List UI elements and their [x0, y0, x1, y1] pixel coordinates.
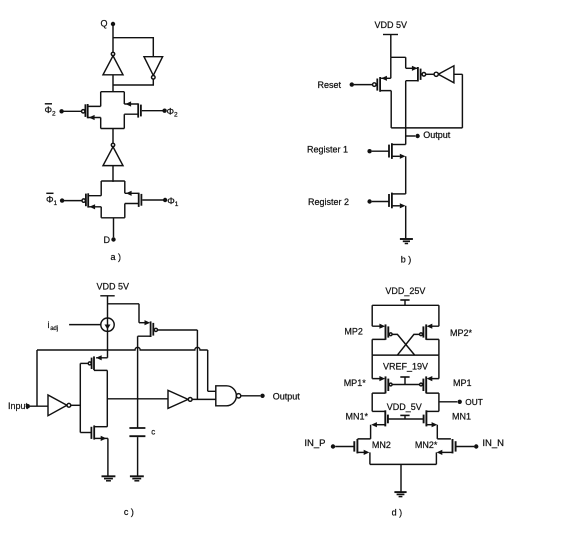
- wire M2 gate lead: [80, 432, 90, 434]
- node Register 2: [372, 201, 389, 203]
- node Output fig c: [241, 395, 260, 397]
- transmission gate TG1: [59, 92, 166, 129]
- wire Q2 drain down: [406, 81, 418, 145]
- capacitor C: [129, 427, 145, 429]
- inverter A2 feedback: [144, 57, 163, 76]
- wire inverter C2 output to nand: [192, 398, 216, 400]
- wire TG pmos gate lead: [64, 110, 82, 112]
- transmission gate TG2: [60, 181, 167, 218]
- svg-text:MN1*: MN1*: [346, 412, 369, 422]
- svg-text:Register 2: Register 2: [308, 197, 349, 207]
- transistor TG nmos right: [137, 103, 139, 117]
- ground 2 fig c: [130, 475, 144, 477]
- wire branch to right pmos: [391, 57, 406, 68]
- svg-text:VDD 5V: VDD 5V: [97, 282, 130, 292]
- svg-text:Reset: Reset: [318, 80, 342, 90]
- wire TG body outline: [101, 180, 125, 182]
- wire inverter C1 output: [71, 404, 81, 406]
- transistor TG pmos left: [84, 104, 86, 117]
- transistor MP2: [372, 305, 379, 326]
- wire Q to inverter A1: [112, 24, 114, 52]
- transistor Q3 register1 nmos: [392, 144, 406, 146]
- node Register 1: [372, 150, 389, 152]
- wire tail bus to ground: [370, 463, 437, 465]
- transistor M1 pmos: [96, 350, 107, 358]
- current source Iadj: [101, 318, 114, 331]
- wire top rail: [372, 304, 439, 306]
- wire integrator node: [107, 398, 168, 400]
- wire Q node to feedback inverter A2: [113, 38, 153, 57]
- wire M3 drain to capacitor with hop: [138, 336, 151, 428]
- source arrow right: [126, 191, 132, 196]
- wire M2 source to ground: [94, 437, 108, 439]
- wire VDD to branch: [390, 35, 392, 58]
- svg-text:MP1: MP1: [453, 378, 472, 388]
- svg-text:2: 2: [174, 112, 178, 119]
- svg-text:1: 1: [54, 200, 58, 207]
- transistor MN1star: [372, 410, 385, 412]
- svg-text:1: 1: [175, 201, 179, 208]
- svg-text:a ): a ): [111, 252, 122, 262]
- transistor MP2star: [432, 305, 439, 326]
- source arrow right: [125, 101, 131, 106]
- transistor MN2: [353, 441, 355, 451]
- wire Q1 drain to inverter input net: [380, 91, 462, 128]
- wire cross couple diag1: [392, 334, 415, 355]
- wire TG nmos gate lead: [142, 110, 163, 112]
- ground 1 fig c: [102, 475, 116, 477]
- wire inverter A2 output to latch node: [113, 79, 153, 85]
- wire inverter A3 to TG2: [112, 166, 114, 182]
- svg-text:VREF_19V: VREF_19V: [383, 361, 428, 371]
- svg-text:adj: adj: [50, 326, 58, 332]
- transistor TG nmos right: [138, 193, 140, 207]
- transistor TG pmos left: [85, 194, 87, 207]
- wire MP1 gates VREF: [392, 384, 419, 386]
- wire cross rail: [372, 354, 439, 356]
- wire Q2 gate to inverter B1: [426, 73, 434, 75]
- wire MP1 drain: [426, 393, 439, 411]
- wire TG pmos gate lead: [64, 200, 82, 202]
- transistor Q2 pmos right: [406, 67, 417, 69]
- ground fig b: [400, 238, 413, 240]
- inverter C1: [48, 395, 67, 416]
- svg-text:VDD_5V: VDD_5V: [387, 402, 422, 412]
- transistor Q1 pmos reset: [390, 57, 392, 78]
- wire cross couple diag2: [397, 334, 419, 355]
- wire MN1 source: [426, 424, 432, 426]
- wire M1 gate lead: [80, 362, 88, 364]
- wire branch to pmos M3: [108, 304, 140, 323]
- svg-text:Output: Output: [273, 392, 301, 402]
- wire VDD down: [107, 296, 109, 350]
- svg-text:c: c: [151, 428, 155, 437]
- wire capacitor to ground: [137, 437, 139, 475]
- svg-text:d ): d ): [392, 508, 403, 518]
- svg-text:i: i: [48, 320, 50, 330]
- wire MN1 gates VDD5: [388, 418, 424, 420]
- wire MP2 drain: [372, 339, 385, 355]
- svg-text:Register 1: Register 1: [307, 145, 348, 155]
- wire iadj lead: [69, 324, 101, 326]
- wire MN2star source: [442, 451, 453, 453]
- inverter A3: [111, 143, 114, 146]
- transistor MP1: [432, 355, 439, 379]
- svg-text:b ): b ): [401, 255, 412, 265]
- svg-text:VDD 5V: VDD 5V: [375, 20, 408, 30]
- svg-text:MP1*: MP1*: [344, 378, 367, 388]
- wire nand top input: [208, 350, 216, 391]
- node Output fig b: [406, 135, 416, 137]
- wire shared gate line: [79, 363, 81, 432]
- svg-text:VDD_25V: VDD_25V: [385, 286, 425, 296]
- wire MN2 source: [357, 451, 364, 453]
- wire bias feedback to input: [36, 350, 38, 406]
- svg-text:2: 2: [52, 111, 56, 118]
- wire inverter B1 input feedback: [454, 74, 463, 128]
- wire MN1star source: [377, 424, 386, 426]
- svg-text:Q: Q: [101, 19, 108, 29]
- svg-text:IN_P: IN_P: [304, 438, 325, 449]
- transistor MN1: [426, 410, 439, 412]
- svg-text:OUT: OUT: [465, 397, 483, 407]
- svg-text:MP2*: MP2*: [450, 328, 473, 338]
- wire M3 gate feedback with hop: [158, 330, 198, 399]
- wire bias node row: [37, 347, 208, 350]
- node Reset: [354, 84, 373, 86]
- wire TG body outline: [101, 91, 125, 93]
- wire inverter A1 input: [112, 75, 114, 92]
- svg-text:MN1: MN1: [452, 412, 471, 422]
- svg-text:MP2: MP2: [344, 326, 363, 336]
- transistor M3 pmos top right: [139, 322, 145, 324]
- ground fig d: [394, 491, 406, 493]
- wire M1 drain: [94, 370, 107, 426]
- transistor Q4 register2 nmos: [392, 193, 406, 195]
- svg-text:MN2*: MN2*: [415, 440, 438, 450]
- wire MP1star drain: [372, 393, 385, 411]
- node D: [113, 218, 115, 238]
- nand gate U1: [216, 386, 237, 406]
- transistor M2 nmos: [94, 426, 107, 428]
- inverter B1: [438, 66, 454, 83]
- source arrow left: [89, 115, 95, 120]
- transistor MP1star: [372, 355, 379, 379]
- svg-text:MN2: MN2: [372, 440, 391, 450]
- svg-text:c ): c ): [124, 507, 134, 517]
- wire Q4 source to ground: [392, 205, 400, 207]
- inverter A1: [111, 52, 114, 55]
- svg-text:D: D: [104, 235, 111, 245]
- transistor MN2star: [455, 441, 457, 451]
- wire TG nmos gate lead: [142, 199, 163, 201]
- wire Q3 source: [392, 155, 400, 157]
- inverter C2: [168, 390, 188, 408]
- svg-text:Input: Input: [8, 401, 29, 411]
- wire TG1 to inverter A3: [112, 129, 114, 144]
- wire MP2star drain: [426, 339, 439, 355]
- source arrow left: [89, 204, 95, 209]
- svg-text:IN_N: IN_N: [482, 438, 504, 449]
- svg-text:Output: Output: [423, 130, 451, 140]
- node OUT: [439, 401, 457, 403]
